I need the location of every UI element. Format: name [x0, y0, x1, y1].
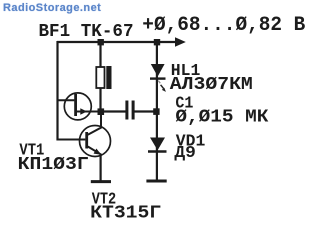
wire BF1 branch vertical	[99, 42, 101, 112]
node junction mid-right	[153, 108, 159, 115]
wire right branch vertical	[156, 42, 158, 181]
transistor VT1 (JFET) circle	[64, 93, 91, 120]
earphone BF1 body	[96, 67, 104, 88]
watermark RadioStorage.net	[3, 2, 101, 14]
VT2 base wire	[58, 139, 86, 141]
node junction top-left	[98, 39, 104, 45]
arrow measurement point	[175, 37, 186, 46]
LED emission arrow 1	[158, 81, 160, 84]
ground bar VD1	[146, 180, 166, 183]
LED HL1 triangle	[151, 64, 165, 77]
ground bar VT2	[91, 180, 111, 183]
svg-text:АЛ3Ø7КМ: АЛ3Ø7КМ	[170, 75, 253, 95]
VT1 channel bar	[74, 94, 77, 116]
capacitor C1 plates	[125, 101, 128, 120]
diode VD1 triangle	[150, 138, 165, 151]
VT1 source wire with arrow	[77, 111, 101, 113]
svg-text:КП1Ø3Г: КП1Ø3Г	[18, 155, 89, 175]
VT2 emitter with arrow	[88, 147, 101, 155]
VT2 collector	[88, 112, 101, 135]
VT1 gate wire	[58, 99, 75, 101]
node junction mid-left	[98, 108, 105, 115]
LED emission arrow 2	[161, 85, 164, 89]
LED HL1 cathode bar	[150, 77, 166, 79]
wire mid rail to capacitor	[101, 110, 126, 112]
svg-text:КТ315Г: КТ315Г	[90, 203, 161, 222]
node junction top-right	[154, 39, 160, 45]
wire left vertical (gate/base bus)	[56, 41, 58, 141]
diode VD1 cathode bar	[148, 150, 167, 152]
earphone BF1 pole bar	[106, 66, 111, 89]
svg-text:+Ø,68...Ø,82 В: +Ø,68...Ø,82 В	[142, 14, 305, 37]
wire top rail	[57, 41, 177, 43]
svg-text:Д9: Д9	[174, 144, 196, 163]
svg-text:BF1 TK-67: BF1 TK-67	[39, 22, 134, 42]
transistor VT2 circle	[80, 126, 111, 157]
svg-text:Ø,Ø15 МК: Ø,Ø15 МК	[175, 108, 268, 128]
VT2 base bar	[85, 132, 88, 149]
VT2 emitter vertical	[99, 154, 101, 182]
wire capacitor to right branch	[135, 110, 157, 112]
